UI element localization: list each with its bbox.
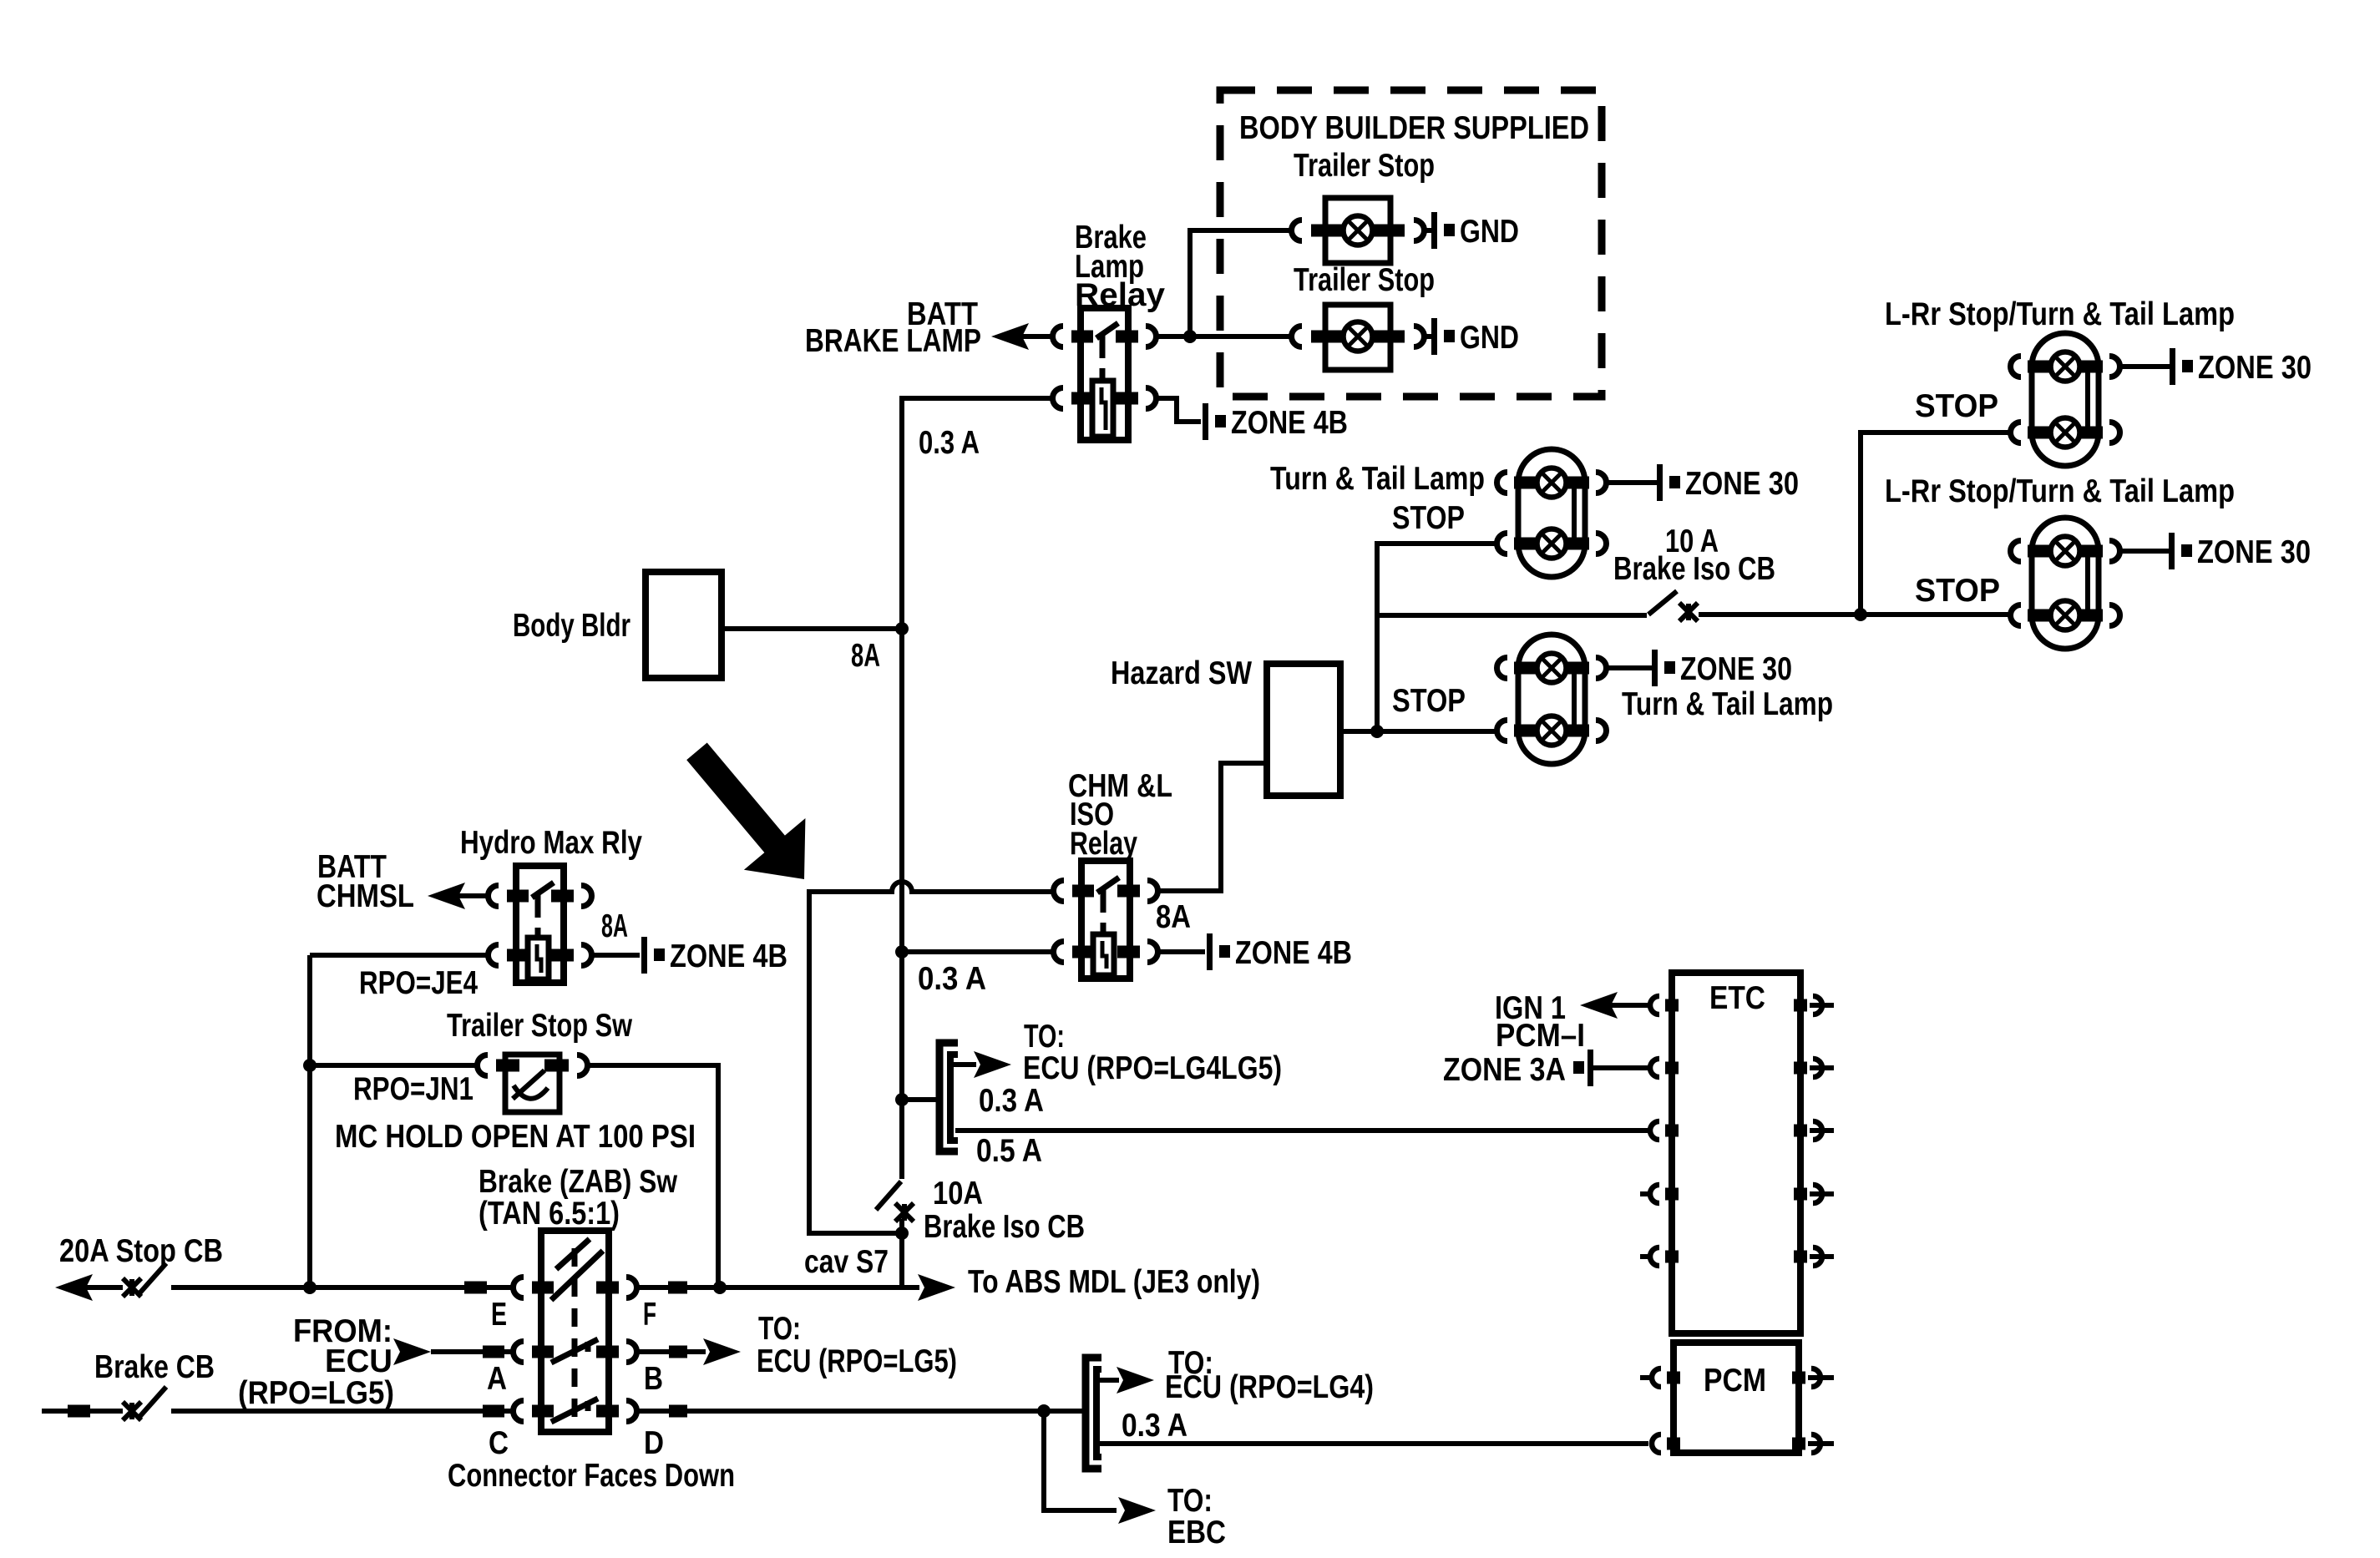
switch ZAB blade A-B [551,1339,598,1363]
module PCM left stub [1640,1375,1650,1380]
module PCM right pin 2 [1792,1438,1805,1450]
box Hazard SW [1267,664,1340,796]
module ETC right pin 5 [1794,1251,1807,1263]
switch Trailer Stop Sw box [505,1055,560,1112]
splice A [483,1346,504,1358]
svg-text:PCM–I: PCM–I [1496,1018,1585,1054]
arrow 20A stop cb output [55,1274,93,1301]
wire CHM switch left with hop over trunk [809,882,1053,1233]
svg-text:STOP: STOP [1392,500,1465,536]
svg-text:BODY BUILDER SUPPLIED: BODY BUILDER SUPPLIED [1239,110,1589,146]
relay Brake Lamp Relay switch pin row [1071,331,1093,343]
box Body Bldr [646,572,722,678]
wire Hazard SW right to Turn & Tail lamp (lower) [1340,729,1496,734]
svg-text:ZONE 30: ZONE 30 [1680,651,1792,687]
ground ZONE 4B (brake lamp relay) [1203,403,1208,440]
svg-text:RPO=JN1: RPO=JN1 [353,1071,473,1107]
svg-text:D: D [644,1425,664,1461]
lamp L-Rr 2 internal conductor [2085,551,2090,615]
svg-text:B: B [644,1361,663,1397]
switch ZAB blade C-D [551,1399,598,1422]
relay Brake Lamp Relay coil pin row [1071,392,1093,405]
lamp Turn & Tail upper top bulb [1537,468,1567,498]
wire CHM coil right to ZONE 4B [1158,949,1205,954]
splice B [669,1346,687,1358]
svg-text:STOP: STOP [1915,573,2000,609]
wire STOP branch to breaker [1377,613,1647,618]
lamp L-Rr 1 top pin bars [2028,361,2051,373]
node trunk / Body Bldr junction [895,622,909,635]
ground GND 1 [1431,212,1437,249]
module ETC left pin 5 [1665,1251,1679,1263]
arrow TO ECU (RPO=LG4LG5) [953,1062,976,1067]
lamp L-Rr 1 top bulb [2051,352,2080,382]
wire relay coil right to ZONE 4B [1157,398,1201,422]
wire bracket 2 to PCM [1100,1441,1648,1446]
svg-text:20A Stop CB: 20A Stop CB [59,1233,223,1269]
module ETC right pin 4 [1794,1188,1807,1201]
lamp L-Rr 1 bottom bulb [2051,418,2080,448]
module PCM box [1674,1343,1799,1453]
relay CHM &L ISO Relay switch blade [1097,878,1119,893]
lamp Trailer Stop 1 pins [1311,225,1344,237]
wire CHM switch right to Hazard SW [1158,763,1267,891]
arrow To ABS MDL [918,1274,955,1301]
svg-text:MC HOLD OPEN AT 100 PSI: MC HOLD OPEN AT 100 PSI [335,1119,696,1155]
splice C [483,1405,504,1418]
svg-text:cav S7: cav S7 [804,1244,889,1280]
wire junction down to EBC arrow [1044,1411,1117,1510]
svg-text:BRAKE LAMP: BRAKE LAMP [805,323,981,359]
lamp Turn & Tail upper bottom bulb [1537,529,1567,559]
lamp Trailer Stop 2 bulb [1344,322,1373,352]
lamp L-Rr 2 outline [2032,518,2099,649]
svg-text:L-Rr Stop/Turn & Tail Lamp: L-Rr Stop/Turn & Tail Lamp [1885,296,2235,332]
ground ZONE 30 (upper turn lamp) [1657,464,1663,501]
node riser / trailer stop sw junction [303,1059,316,1072]
module ETC left pin 2 [1665,1062,1679,1075]
lamp Turn & Tail lower bottom bulb [1537,716,1567,746]
lamp Trailer Stop 1 box [1325,198,1390,263]
svg-text:0.3 A: 0.3 A [919,425,980,461]
svg-text:0.3 A: 0.3 A [918,961,986,997]
relay CHM &L ISO Relay coil [1093,934,1114,975]
svg-text:GND: GND [1460,214,1519,250]
wire riser to trailer stop sw [310,1063,478,1068]
svg-text:Brake CB: Brake CB [94,1349,215,1385]
breaker 10A Brake Iso CB (vertical) x-mark [895,1203,914,1222]
ground ZONE 30 (L-Rr 2) [2169,533,2175,569]
node F / trailer stop sw junction [713,1281,727,1294]
svg-text:ETC: ETC [1709,980,1765,1016]
fuse bracket 1 outer [939,1043,958,1151]
wire left riser [307,955,312,1287]
node cav S7 junction [895,1227,909,1240]
svg-text:Turn & Tail Lamp: Turn & Tail Lamp [1270,461,1485,497]
wire junction up to Trailer Stop lamp 1 [1190,230,1291,336]
wire hydro coil right to ZONE 4B [592,953,640,958]
relay Hydro Max Rly switch pin row [507,890,529,903]
lamp L-Rr 2 top pin bars [2028,545,2051,558]
relay CHM &L ISO Relay body [1081,861,1130,979]
wire junction to Trailer Stop lamp 2 [1190,334,1291,339]
svg-text:(RPO=LG5): (RPO=LG5) [238,1375,394,1411]
svg-text:8A: 8A [601,908,628,944]
big pointer arrow [666,726,835,905]
svg-text:Trailer Stop Sw: Trailer Stop Sw [447,1008,633,1044]
lamp Turn & Tail upper outline [1518,449,1585,577]
module ETC box [1672,973,1800,1333]
wire trunk vertical [899,398,904,1179]
fuse bracket 1 inner [950,1055,958,1141]
ground GND 2 [1431,318,1437,355]
lamp Turn & Tail lower top pin bars [1514,662,1537,675]
wire from-ecu arrow to A pin [431,1349,514,1354]
svg-text:TO:: TO: [1167,1483,1213,1519]
module PCM left pin 2 [1667,1438,1680,1450]
lamp Trailer Stop 1 bulb [1344,216,1373,245]
wire bracket 1 to ETC [955,1128,1648,1133]
svg-text:RPO=JE4: RPO=JE4 [359,965,478,1001]
lamp L-Rr 2 bottom bulb [2051,601,2080,630]
wire hydro coil left [310,953,488,958]
lamp L-Rr 1 internal conductor [2085,367,2090,432]
svg-text:Trailer Stop: Trailer Stop [1294,262,1435,298]
svg-text:Brake Iso CB: Brake Iso CB [924,1209,1085,1245]
wire B pin to TO ECU arrow [636,1349,706,1354]
svg-text:10A: 10A [933,1176,983,1211]
svg-text:Trailer Stop: Trailer Stop [1294,148,1435,184]
module PCM right pin 1 [1792,1372,1805,1384]
svg-text:ZONE 30: ZONE 30 [2197,534,2311,570]
wire 20A breaker to E pin [171,1285,514,1290]
svg-text:F: F [643,1297,656,1333]
svg-text:8A: 8A [851,638,880,674]
arrow to BATT BRAKE LAMP [991,323,1029,350]
relay Hydro Max Rly coil pin row [507,949,529,962]
splice F [668,1282,687,1294]
relay Hydro Max Rly body [516,866,564,983]
svg-text:ZONE 4B: ZONE 4B [670,938,787,974]
svg-text:ZONE 4B: ZONE 4B [1235,935,1352,971]
ground ZONE 4B (hydro relay) [641,937,647,974]
breaker 10 A Brake Iso CB x-mark [1679,603,1698,621]
relay Brake Lamp Relay coil [1092,381,1113,437]
module ETC left stub [1640,1254,1650,1259]
svg-text:Brake (ZAB) Sw: Brake (ZAB) Sw [479,1164,678,1200]
svg-text:To ABS MDL (JE3 only): To ABS MDL (JE3 only) [968,1264,1260,1300]
lamp Turn & Tail lower top bulb [1537,654,1567,683]
node trunk / fuse branch junction [895,1093,909,1106]
svg-text:ZONE 3A: ZONE 3A [1443,1052,1566,1088]
svg-text:ZONE 30: ZONE 30 [1685,466,1799,502]
wire relay coil left to trunk [899,396,1052,401]
wire breaker to cav S7 node [899,1219,904,1233]
breaker 10A Brake Iso CB (vertical) blade [876,1181,901,1210]
relay CHM &L ISO Relay switch pin row [1072,885,1094,898]
svg-text:ZONE 30: ZONE 30 [2198,350,2312,386]
ground ZONE 30 (lower turn lamp) [1652,650,1658,686]
wire D row to bracket 2 [636,1409,1083,1414]
module ETC right pin 3 [1794,1125,1807,1137]
svg-text:8A: 8A [1156,899,1191,935]
wire breaker to L-Rr lamps [1699,612,2010,617]
svg-text:TO:: TO: [1024,1019,1065,1055]
arrow TO EBC [1118,1497,1156,1524]
svg-text:TO:: TO: [758,1311,801,1347]
svg-text:STOP: STOP [1915,388,1998,424]
wire trailer stop sw to F node [587,1065,718,1287]
wire trunk to fuse bracket 1 [902,1097,937,1102]
dashed box BODY BUILDER SUPPLIED [1220,90,1602,397]
module ETC left pin 4 [1665,1188,1679,1201]
lamp Turn & Tail upper internal conductor [1572,483,1577,544]
wire CHM coil left to trunk [902,949,1053,954]
lamp Turn & Tail lower bottom pin bars [1514,725,1537,737]
module ETC left pin 3 [1665,1125,1679,1137]
splice D [669,1405,687,1418]
svg-text:Turn & Tail Lamp: Turn & Tail Lamp [1622,686,1833,722]
breaker 20A Stop CB x-mark [123,1278,141,1297]
svg-text:Connector Faces Down: Connector Faces Down [448,1458,735,1494]
switch ZAB mechanical link dashed [572,1248,578,1419]
switch ZAB blade E-F [551,1251,603,1300]
svg-text:GND: GND [1460,320,1519,356]
switch Brake (ZAB) Sw box [541,1231,609,1432]
lamp L-Rr 1 bottom pin bars [2028,427,2051,439]
wire L-Rr 2 to ZONE 30 [2120,549,2169,554]
lamp L-Rr 1 outline [2032,333,2099,466]
ground ZONE 3A [1573,1061,1584,1074]
wire relay switch to junction [1157,334,1190,339]
lamp Turn & Tail upper top pin bars [1514,477,1537,489]
relay Brake Lamp Relay body [1081,308,1128,440]
arrow IGN 1 PCM-I [1580,992,1618,1019]
lamp Turn & Tail lower outline [1518,635,1585,764]
wire L-Rr 1 to ZONE 30 [2120,364,2170,369]
svg-text:Brake Iso CB: Brake Iso CB [1613,551,1775,587]
node D / EBC junction [1037,1404,1051,1418]
svg-text:(TAN 6.5:1): (TAN 6.5:1) [479,1196,620,1232]
relay Hydro Max Rly switch blade [532,883,554,898]
switch Trailer Stop Sw pins [496,1060,519,1072]
relay CHM &L ISO Relay coil pin row [1072,946,1094,959]
switch ZAB pin row y=1690 [532,1405,554,1418]
svg-text:E: E [491,1297,507,1333]
breaker 20A Stop CB blade [139,1263,166,1293]
arrow TO ECU (RPO=LG5) [703,1338,741,1365]
switch Trailer Stop Sw blade [513,1070,544,1099]
svg-text:L-Rr Stop/Turn & Tail Lamp: L-Rr Stop/Turn & Tail Lamp [1885,473,2235,509]
arrow to BATT CHMSL [428,883,465,909]
node hazard junction [1370,725,1384,738]
lamp Turn & Tail upper bottom pin bars [1514,538,1537,550]
node riser/E junction [303,1281,316,1294]
svg-text:ECU (RPO=LG4): ECU (RPO=LG4) [1165,1369,1374,1405]
wire F pin to ABS arrow [636,1285,919,1290]
lamp L-Rr 2 top bulb [2051,537,2080,566]
arrow FROM ECU [393,1338,431,1365]
lamp Trailer Stop 2 pins [1311,331,1344,343]
module PCM left pin 1 [1667,1372,1680,1384]
svg-text:ECU: ECU [325,1343,392,1379]
svg-text:Hydro Max Rly: Hydro Max Rly [460,825,642,861]
svg-text:Relay: Relay [1070,826,1137,862]
relay Hydro Max Rly coil [528,938,549,979]
module ETC right pin 1 [1794,999,1807,1012]
module ETC left pin 1 [1665,999,1679,1012]
splice brake cb [68,1405,90,1418]
arrow TO ECU (RPO=LG4) [1100,1378,1119,1383]
wire Trailer Stop 1 to GND [1425,228,1433,233]
wire ZONE 3A to ETC [1593,1065,1650,1070]
lamp L-Rr 2 bottom pin bars [2028,610,2051,622]
wire brake cb to C pin [171,1409,514,1414]
node trunk / CHM coil junction [895,945,909,959]
breaker Brake CB x-mark [123,1402,141,1420]
wire lower turn lamp to ZONE 30 [1607,665,1653,670]
wire Body Bldr to trunk [722,626,902,631]
wire hazard junction up to Turn & Tail lamp (upper) [1377,544,1496,731]
fuse bracket 2 outer [1086,1358,1101,1469]
module ETC left stub [1640,1191,1650,1196]
svg-text:0.3 A: 0.3 A [979,1083,1044,1119]
svg-text:CHMSL: CHMSL [316,878,414,914]
svg-text:Hazard SW: Hazard SW [1111,655,1252,691]
switch ZAB pin row y=1619 [532,1346,554,1358]
module ETC right pin 2 [1794,1062,1807,1075]
lamp Trailer Stop 2 box [1325,305,1390,370]
svg-text:PCM: PCM [1704,1363,1766,1399]
svg-text:ZONE 4B: ZONE 4B [1231,405,1348,441]
svg-text:STOP: STOP [1392,683,1466,719]
relay Brake Lamp Relay switch blade [1096,323,1118,338]
svg-text:A: A [487,1361,507,1397]
wire brake cb stub [42,1409,123,1414]
switch ZAB pin row y=1542 [532,1282,554,1294]
svg-text:ECU (RPO=LG5): ECU (RPO=LG5) [757,1343,957,1379]
node L-Rr branch junction [1854,608,1867,621]
wire upper turn lamp to ZONE 30 [1607,480,1658,485]
wire junction up to L-Rr lamp 1 [1861,432,2010,615]
svg-text:C: C [489,1425,509,1461]
svg-text:EBC: EBC [1167,1515,1226,1550]
svg-text:ECU (RPO=LG4LG5): ECU (RPO=LG4LG5) [1023,1050,1282,1086]
svg-text:0.3 A: 0.3 A [1122,1408,1187,1444]
ground ZONE 30 (L-Rr 1) [2170,348,2175,385]
fuse bracket 2 inner [1096,1369,1101,1457]
node relay output junction [1183,330,1197,343]
ground ZONE 4B (CHM relay) [1207,933,1213,970]
svg-text:Body Bldr: Body Bldr [513,608,630,644]
splice E [464,1282,487,1294]
lamp Turn & Tail lower internal conductor [1572,668,1577,731]
wire Trailer Stop 2 to GND [1425,334,1433,339]
breaker 10 A Brake Iso CB blade [1648,591,1677,615]
breaker Brake CB blade [139,1387,166,1417]
svg-text:0.5 A: 0.5 A [976,1133,1042,1169]
wire cav S7 junction down to ABS row [899,1233,904,1287]
